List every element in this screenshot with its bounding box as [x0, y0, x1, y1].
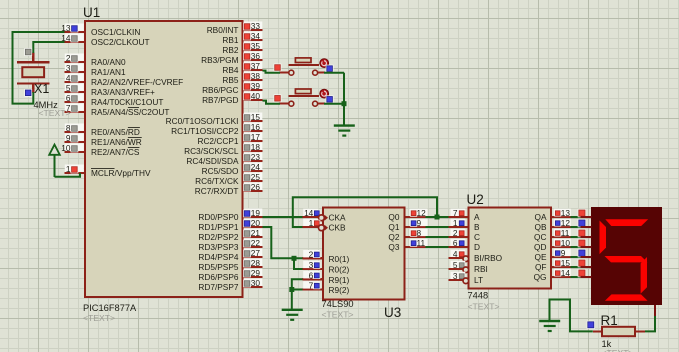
U1 pin 28 RD5/PSP5 — [198, 258, 262, 272]
digit segment c — [641, 257, 647, 294]
U1 pin 17 RC2/CCP1 — [197, 132, 262, 146]
svg-text:QG: QG — [534, 272, 547, 282]
U1 pin 29 RD6/PSP6 — [198, 268, 262, 282]
svg-text:9: 9 — [417, 218, 422, 228]
resistor R1 1k — [593, 327, 645, 336]
wire pin40 to button2 — [263, 101, 281, 104]
display pin QB state square — [578, 219, 586, 227]
U3 pin 7 R9(2) — [303, 281, 350, 295]
U2 pin 10 QD — [534, 238, 571, 252]
label U2 — [467, 192, 484, 207]
U1 pin 7 RA5/AN4/SS/C2OUT — [65, 103, 170, 117]
svg-text:18: 18 — [251, 142, 261, 152]
U2 pin 13 QA — [535, 208, 571, 222]
digit segment a — [605, 219, 648, 226]
svg-text:RC5/SDO: RC5/SDO — [202, 166, 239, 176]
wire R0 junction to R0(2) — [294, 258, 303, 269]
svg-text:6: 6 — [66, 93, 71, 103]
svg-text:10: 10 — [561, 238, 571, 248]
wire RD0 (pin19) to CKA — [263, 216, 303, 218]
svg-text:RC3/SCK/SCL: RC3/SCK/SCL — [184, 146, 239, 156]
decoder U2 7448 — [469, 208, 552, 289]
svg-text:29: 29 — [251, 268, 261, 278]
svg-text:RB0/INT: RB0/INT — [207, 25, 239, 35]
svg-text:7: 7 — [309, 281, 314, 291]
svg-text:38: 38 — [251, 71, 261, 81]
wire button2 to ground bus — [324, 103, 344, 105]
display pin QG state square — [578, 269, 586, 277]
svg-text:R9(2): R9(2) — [329, 285, 350, 295]
svg-text:RA5/AN4/SS/C2OUT: RA5/AN4/SS/C2OUT — [91, 107, 169, 117]
svg-text:RE0/AN5/RD: RE0/AN5/RD — [91, 127, 140, 137]
svg-text:MCLR/Vpp/THV: MCLR/Vpp/THV — [91, 168, 151, 178]
U1 pin 19 RD0/PSP0 — [198, 208, 262, 222]
label 1k — [602, 339, 612, 349]
U1 pin 23 RC4/SDI/SDA — [186, 152, 262, 166]
wire QF to display — [571, 266, 581, 268]
U3 pin 12 Q0 — [388, 208, 427, 222]
svg-text:28: 28 — [251, 258, 261, 268]
U1 pin 6 RA4/T0CKI/C1OUT — [65, 93, 164, 107]
wire Q0 to 7448 A — [426, 216, 449, 218]
U2 pin 3 LT — [449, 271, 484, 285]
svg-text:RB2: RB2 — [222, 45, 239, 55]
svg-text:RC6/TX/CK: RC6/TX/CK — [195, 176, 239, 186]
svg-text:35: 35 — [251, 41, 261, 51]
svg-text:R1: R1 — [601, 313, 618, 328]
U2 pin 4 BI/RBO — [449, 249, 503, 263]
svg-text:39: 39 — [251, 81, 261, 91]
svg-text:QE: QE — [535, 252, 547, 262]
svg-text:C: C — [474, 232, 480, 242]
svg-text:D: D — [474, 242, 480, 252]
label U3 — [384, 305, 401, 320]
svg-text:RB3/PGM: RB3/PGM — [201, 55, 238, 65]
label U1 TEXT — [83, 313, 115, 323]
U1 pin 13 OSC1/CLKIN — [61, 23, 140, 37]
svg-text:74LS90: 74LS90 — [322, 299, 354, 309]
wire button ground bus vertical — [343, 73, 345, 126]
wire R9 junction to ground — [291, 290, 293, 310]
wire QE to display — [571, 256, 581, 258]
U1 pin 8 RE0/AN5/RD — [65, 123, 140, 137]
ground (U3 R9 pins) — [282, 310, 303, 320]
svg-text:40: 40 — [251, 91, 261, 101]
svg-text:<TEXT>: <TEXT> — [322, 310, 354, 320]
U1 pin 15 RC0/T1OSO/T1CKI — [166, 112, 263, 126]
svg-text:RD4/PSP4: RD4/PSP4 — [198, 252, 239, 262]
svg-text:RA2/AN2/VREF-/CVREF: RA2/AN2/VREF-/CVREF — [91, 77, 183, 87]
svg-text:RB7/PGD: RB7/PGD — [202, 95, 238, 105]
U1 pin 4 RA2/AN2/VREF-/CVREF — [65, 73, 184, 87]
digit segment d — [605, 294, 648, 300]
svg-text:CKB: CKB — [329, 223, 347, 233]
U1 pin 3 RA1/AN1 — [65, 63, 126, 77]
U1 pin 35 RB2 — [222, 41, 262, 55]
node R1 left state square — [587, 321, 595, 329]
svg-text:4: 4 — [66, 73, 71, 83]
U1 pin 33 RB0/INT — [207, 21, 263, 35]
label 74LS90 — [322, 299, 354, 309]
U1 pin 25 RC6/TX/CK — [195, 172, 262, 186]
U1 pin 26 RC7/RX/DT — [195, 182, 263, 196]
svg-text:14: 14 — [561, 268, 571, 278]
wire RD1 (pin20) to R0(1) — [263, 227, 303, 258]
U1 pin 16 RC1/T1OSI/CCP2 — [171, 122, 262, 136]
svg-text:BI/RBO: BI/RBO — [474, 253, 503, 263]
label U1 — [83, 5, 100, 20]
U2 pin 15 QF — [535, 258, 571, 272]
svg-text:RD7/PSP7: RD7/PSP7 — [198, 282, 239, 292]
svg-text:13: 13 — [561, 208, 571, 218]
button 1 left state square — [274, 64, 282, 72]
U1 pin 10 RE2/AN7/CS — [61, 143, 140, 157]
svg-text:RE1/AN6/WR: RE1/AN6/WR — [91, 137, 142, 147]
U1 pin 5 RA3/AN3/VREF+ — [65, 83, 156, 97]
wire Q2 to 7448 C — [426, 236, 449, 238]
U3 pin 2 R0(1) — [303, 250, 350, 264]
svg-text:OSC2/CLKOUT: OSC2/CLKOUT — [91, 37, 150, 47]
label X1 TEXT — [39, 108, 71, 118]
button 1 actuator — [320, 59, 329, 68]
svg-text:RA1/AN1: RA1/AN1 — [91, 67, 126, 77]
svg-text:RC7/RX/DT: RC7/RX/DT — [195, 186, 239, 196]
wire button1 to ground bus — [324, 72, 344, 74]
svg-text:R0(2): R0(2) — [329, 265, 350, 275]
svg-text:21: 21 — [251, 228, 261, 238]
wire QG to display — [571, 276, 581, 278]
svg-text:RD6/PSP6: RD6/PSP6 — [198, 272, 239, 282]
svg-text:23: 23 — [251, 152, 261, 162]
U3 pin 14 CKA — [303, 208, 347, 222]
svg-text:15: 15 — [561, 258, 571, 268]
svg-text:OSC1/CLKIN: OSC1/CLKIN — [91, 27, 140, 37]
svg-text:34: 34 — [251, 31, 261, 41]
svg-text:5: 5 — [66, 83, 71, 93]
button 2 actuator — [320, 89, 329, 98]
svg-text:Q3: Q3 — [388, 242, 399, 252]
svg-text:RD3/PSP3: RD3/PSP3 — [198, 242, 239, 252]
svg-text:A: A — [474, 212, 480, 222]
counter U3 74LS90 — [323, 208, 405, 300]
svg-text:RC2/CCP1: RC2/CCP1 — [197, 136, 238, 146]
ground (R1) — [539, 321, 560, 331]
svg-text:U2: U2 — [467, 192, 484, 207]
svg-text:RC0/T1OSO/T1CKI: RC0/T1OSO/T1CKI — [166, 116, 239, 126]
svg-text:27: 27 — [251, 248, 261, 258]
digit segment f — [600, 221, 607, 255]
svg-text:9: 9 — [561, 248, 566, 258]
svg-text:RBI: RBI — [474, 264, 488, 274]
junction R9 — [289, 287, 294, 292]
wire R9(1) to junction — [292, 279, 303, 289]
wire QA to display — [571, 216, 581, 218]
svg-text:11: 11 — [417, 238, 426, 248]
svg-text:CKA: CKA — [329, 213, 347, 223]
svg-text:17: 17 — [251, 132, 261, 142]
label R1 — [601, 313, 618, 328]
wire pin37 to button1 — [263, 71, 281, 73]
U1 pin 21 RD2/PSP2 — [198, 228, 262, 242]
svg-text:B: B — [474, 222, 480, 232]
crystal X1 — [17, 52, 50, 93]
label 4MHz — [34, 100, 59, 110]
svg-text:<TEXT>: <TEXT> — [39, 108, 71, 118]
U1 pin 27 RD4/PSP4 — [198, 248, 262, 262]
U2 pin 6 D — [449, 238, 481, 252]
wire OSC1: pin13 to crystal bottom — [13, 32, 65, 104]
svg-text:33: 33 — [251, 21, 261, 31]
svg-text:26: 26 — [251, 182, 261, 192]
button 1 right state square — [326, 65, 334, 73]
svg-text:20: 20 — [251, 218, 261, 228]
svg-text:U3: U3 — [384, 305, 401, 320]
svg-text:6: 6 — [309, 271, 314, 281]
wire QD to display — [571, 246, 581, 248]
svg-text:12: 12 — [417, 208, 427, 218]
push button 2 (to RB7 pin 40) — [279, 89, 325, 106]
wire OSC2: pin14 to crystal top — [33, 42, 64, 53]
U1 pin 40 RB7/PGD — [202, 91, 262, 105]
svg-text:19: 19 — [251, 208, 261, 218]
U1 pin 36 RB3/PGM — [201, 51, 262, 65]
U3 pin 11 Q3 — [388, 238, 427, 252]
U2 pin 7 A — [449, 208, 481, 222]
svg-text:1: 1 — [66, 164, 71, 174]
svg-text:U1: U1 — [83, 5, 100, 20]
svg-text:QB: QB — [535, 222, 547, 232]
svg-text:37: 37 — [251, 61, 261, 71]
svg-text:RD5/PSP5: RD5/PSP5 — [198, 262, 239, 272]
button 2 right state square — [326, 95, 334, 103]
label R1 TEXT — [602, 348, 634, 352]
svg-text:25: 25 — [251, 172, 261, 182]
wire QB to display — [571, 226, 581, 228]
svg-text:<TEXT>: <TEXT> — [468, 302, 500, 312]
U1 pin 24 RC5/SDO — [202, 162, 263, 176]
push button 1 (to RB4 pin 37) — [279, 58, 325, 75]
U2 pin 14 QG — [534, 268, 571, 282]
node OSC1 state square — [24, 89, 32, 97]
U1 pin 37 RB4 — [222, 61, 262, 75]
svg-text:RA4/T0CKI/C1OUT: RA4/T0CKI/C1OUT — [91, 97, 163, 107]
svg-text:<TEXT>: <TEXT> — [83, 313, 115, 323]
U1 pin 39 RB6/PGC — [202, 81, 262, 95]
display pin QF state square — [578, 259, 586, 267]
U2 pin 9 QE — [535, 248, 571, 262]
U2 pin 1 B — [449, 218, 481, 232]
label U3 TEXT — [322, 310, 354, 320]
junction buttons ground bus — [342, 101, 347, 106]
svg-text:QA: QA — [535, 212, 547, 222]
display pin QE state square — [578, 249, 586, 257]
ground (buttons) — [334, 126, 355, 136]
svg-text:<TEXT>: <TEXT> — [602, 348, 634, 352]
U3 pin 8 Q2 — [388, 228, 427, 242]
U2 pin 11 QC — [534, 228, 571, 242]
U3 pin 6 R9(1) — [303, 271, 350, 285]
svg-text:12: 12 — [561, 218, 571, 228]
label X1 — [34, 82, 49, 96]
svg-text:RB6/PGC: RB6/PGC — [202, 85, 238, 95]
U1 pin 22 RD3/PSP3 — [198, 238, 262, 252]
U2 pin 2 C — [449, 228, 481, 242]
svg-text:8: 8 — [417, 228, 422, 238]
wire power arrow to pin1 MCLR — [55, 173, 81, 177]
svg-text:QF: QF — [535, 262, 547, 272]
microcontroller U1 PIC16F877A — [85, 21, 243, 297]
svg-text:RD1/PSP1: RD1/PSP1 — [198, 222, 239, 232]
U2 pin 5 RBI — [449, 260, 488, 274]
svg-text:10: 10 — [61, 143, 71, 153]
svg-text:3: 3 — [66, 63, 71, 73]
display pin QA state square — [578, 209, 586, 217]
svg-text:36: 36 — [251, 51, 261, 61]
svg-text:R0(1): R0(1) — [329, 254, 350, 264]
U1 pin 18 RC3/SCK/SCL — [184, 142, 262, 156]
junction R0 — [292, 256, 297, 261]
svg-text:RA3/AN3/VREF+: RA3/AN3/VREF+ — [91, 87, 155, 97]
svg-text:11: 11 — [561, 228, 570, 238]
svg-text:PIC16F877A: PIC16F877A — [83, 303, 137, 313]
svg-text:RB5: RB5 — [222, 75, 239, 85]
U1 pin 34 RB1 — [222, 31, 262, 45]
svg-text:QC: QC — [534, 232, 546, 242]
svg-text:RB1: RB1 — [222, 35, 239, 45]
svg-text:Q0: Q0 — [388, 212, 399, 222]
U3 pin 9 Q1 — [388, 218, 427, 232]
label 7448 — [468, 291, 489, 301]
svg-text:2: 2 — [309, 250, 314, 260]
svg-text:RB4: RB4 — [222, 65, 239, 75]
svg-text:RC4/SDI/SDA: RC4/SDI/SDA — [186, 156, 239, 166]
U1 pin 20 RD1/PSP1 — [198, 218, 262, 232]
U1 pin 9 RE1/AN6/WR — [65, 133, 142, 147]
svg-text:RD0/PSP0: RD0/PSP0 — [198, 212, 239, 222]
svg-text:3: 3 — [309, 260, 314, 270]
svg-text:16: 16 — [251, 122, 261, 132]
svg-text:RA0/AN0: RA0/AN0 — [91, 57, 126, 67]
U1 pin 30 RD7/PSP7 — [198, 278, 262, 292]
wire display common to R1 — [645, 316, 655, 331]
svg-text:22: 22 — [251, 238, 261, 248]
7-segment display — [581, 207, 663, 317]
U1 pin 1 MCLR/Vpp/THV — [65, 164, 151, 178]
svg-text:15: 15 — [251, 112, 261, 122]
svg-text:Q2: Q2 — [388, 232, 399, 242]
wire Q0 to CKB (feedback over top) — [293, 197, 437, 227]
power terminal (arrow up) for MCLR — [49, 145, 60, 177]
svg-text:RE2/AN7/CS: RE2/AN7/CS — [91, 147, 140, 157]
label U2 TEXT — [468, 302, 500, 312]
digit segment g — [605, 256, 648, 262]
wire R1 to ground — [550, 300, 593, 332]
wire Q1 to 7448 B — [426, 226, 449, 228]
button 2 left state square — [274, 94, 282, 102]
U3 pin 1 CKB — [303, 218, 347, 232]
U1 pin 2 RA0/AN0 — [65, 53, 126, 67]
display pin QD state square — [578, 239, 586, 247]
svg-text:7448: 7448 — [468, 291, 489, 301]
svg-text:X1: X1 — [34, 82, 49, 96]
svg-text:RC1/T1OSI/CCP2: RC1/T1OSI/CCP2 — [171, 126, 239, 136]
U3 pin 3 R0(2) — [303, 260, 350, 274]
junction Q0 — [435, 215, 440, 220]
node OSC2 state square — [24, 48, 32, 56]
svg-text:30: 30 — [251, 278, 261, 288]
svg-text:Q1: Q1 — [388, 222, 399, 232]
svg-text:LT: LT — [474, 275, 483, 285]
wire junction to R9(2) — [292, 289, 303, 291]
svg-text:9: 9 — [66, 133, 71, 143]
label PIC16F877A — [83, 303, 137, 313]
svg-text:QD: QD — [534, 242, 546, 252]
svg-text:24: 24 — [251, 162, 261, 172]
U1 pin 14 OSC2/CLKOUT — [61, 33, 149, 47]
svg-text:RD2/PSP2: RD2/PSP2 — [198, 232, 239, 242]
svg-text:2: 2 — [66, 53, 71, 63]
wire QC to display — [571, 236, 581, 238]
svg-text:8: 8 — [66, 123, 71, 133]
U1 pin 38 RB5 — [222, 71, 262, 85]
display pin QC state square — [578, 229, 586, 237]
svg-text:R9(1): R9(1) — [329, 275, 350, 285]
U2 pin 12 QB — [535, 218, 571, 232]
wire Q3 to 7448 D — [426, 246, 449, 248]
